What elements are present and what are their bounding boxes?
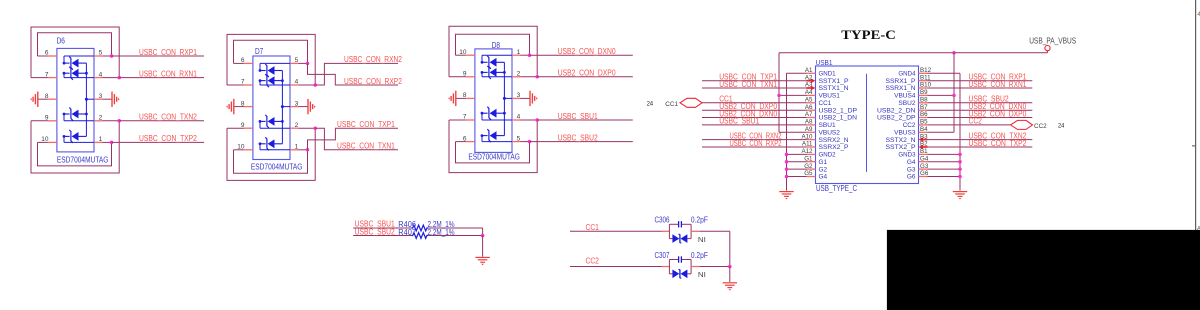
svg-text:10: 10 <box>41 136 49 143</box>
svg-text:VBUS3: VBUS3 <box>894 130 916 137</box>
svg-text:9: 9 <box>241 122 245 129</box>
svg-text:USB1: USB1 <box>816 58 833 67</box>
svg-text:USBC_CON_TXN1: USBC_CON_TXN1 <box>719 80 777 89</box>
svg-text:8: 8 <box>45 93 49 100</box>
svg-text:USBC_CON_RXP1: USBC_CON_RXP1 <box>139 48 197 57</box>
svg-text:8: 8 <box>463 92 467 99</box>
svg-text:CC2: CC2 <box>586 257 600 266</box>
svg-text:USB2_1_DP: USB2_1_DP <box>819 107 858 114</box>
svg-text:SSTX2_P: SSTX2_P <box>886 144 916 151</box>
svg-text:D6: D6 <box>57 37 66 46</box>
svg-text:GND1: GND1 <box>819 71 836 78</box>
svg-text:USBC_SBU2: USBC_SBU2 <box>355 228 396 237</box>
svg-text:CC2: CC2 <box>1034 123 1047 130</box>
svg-text:TYPE-C: TYPE-C <box>841 28 896 42</box>
svg-text:NI: NI <box>698 272 706 279</box>
svg-text:D7: D7 <box>255 47 264 56</box>
svg-text:USBC_CON_RXN1: USBC_CON_RXN1 <box>139 69 197 78</box>
svg-text:USBC_SBU2: USBC_SBU2 <box>558 133 599 142</box>
svg-text:B5: B5 <box>920 119 928 126</box>
svg-text:USBC_CON_TXP2: USBC_CON_TXP2 <box>969 139 1027 148</box>
svg-text:24: 24 <box>647 101 654 108</box>
svg-text:9: 9 <box>463 71 467 78</box>
svg-text:5: 5 <box>99 50 103 57</box>
svg-text:B8: B8 <box>920 97 928 104</box>
svg-text:10: 10 <box>459 49 467 56</box>
svg-text:USB2_2_DN: USB2_2_DN <box>877 107 916 114</box>
svg-text:SSTX1_N: SSTX1_N <box>819 85 849 92</box>
svg-text:USBC_CON_TXN1: USBC_CON_TXN1 <box>337 142 395 151</box>
svg-text:G3: G3 <box>907 166 916 173</box>
svg-text:2: 2 <box>517 71 521 78</box>
svg-text:USBC_CON_RXP2: USBC_CON_RXP2 <box>730 139 782 148</box>
svg-text:1: 1 <box>295 144 299 151</box>
svg-text:2: 2 <box>99 115 103 122</box>
svg-text:CC1: CC1 <box>665 101 678 108</box>
svg-text:ESD7004MUTAG: ESD7004MUTAG <box>468 152 520 161</box>
svg-text:7: 7 <box>241 79 245 86</box>
svg-text:SBU2: SBU2 <box>898 100 915 107</box>
svg-text:G4: G4 <box>920 155 929 162</box>
svg-text:CC1: CC1 <box>586 223 600 232</box>
svg-text:USB2_CON_DXN0: USB2_CON_DXN0 <box>558 47 616 56</box>
svg-text:C307: C307 <box>655 251 670 260</box>
svg-text:B9: B9 <box>920 89 928 96</box>
svg-text:C306: C306 <box>655 216 670 225</box>
svg-text:G6: G6 <box>920 170 929 177</box>
svg-text:SSRX1_N: SSRX1_N <box>886 85 916 92</box>
svg-text:USBC_SBU1: USBC_SBU1 <box>558 112 599 121</box>
svg-text:8: 8 <box>241 100 245 107</box>
svg-text:R407: R407 <box>398 228 416 237</box>
svg-text:4: 4 <box>517 114 521 121</box>
svg-text:B2: B2 <box>920 141 928 148</box>
svg-text:9: 9 <box>45 115 49 122</box>
svg-text:G1: G1 <box>819 159 828 166</box>
svg-text:USBC_CON_RXN2: USBC_CON_RXN2 <box>344 55 402 64</box>
svg-text:B1: B1 <box>920 148 928 155</box>
svg-text:USB_TYPE_C: USB_TYPE_C <box>816 184 857 193</box>
svg-text:CC1: CC1 <box>819 100 832 107</box>
svg-text:7: 7 <box>45 71 49 78</box>
svg-text:USBC_CON_TXP1: USBC_CON_TXP1 <box>337 120 395 129</box>
svg-text:SSRX2_N: SSRX2_N <box>819 137 849 144</box>
svg-text:SSRX1_P: SSRX1_P <box>886 78 916 85</box>
svg-text:5: 5 <box>295 57 299 64</box>
svg-text:SSTX1_P: SSTX1_P <box>819 78 849 85</box>
svg-text:6: 6 <box>241 57 245 64</box>
svg-text:USBC_CON_TXN2: USBC_CON_TXN2 <box>139 113 197 122</box>
svg-text:B6: B6 <box>920 111 928 118</box>
svg-text:4: 4 <box>295 79 299 86</box>
svg-text:USBC_CON_RXN1: USBC_CON_RXN1 <box>969 80 1027 89</box>
svg-text:3: 3 <box>99 93 103 100</box>
svg-text:NI: NI <box>698 237 706 244</box>
svg-text:USB2_1_DN: USB2_1_DN <box>819 115 858 122</box>
svg-text:B4: B4 <box>920 126 928 133</box>
svg-text:10: 10 <box>237 144 245 151</box>
svg-text:USB2_CON_DXP0: USB2_CON_DXP0 <box>558 69 616 78</box>
svg-text:ESD7004MUTAG: ESD7004MUTAG <box>57 155 109 164</box>
svg-text:GND2: GND2 <box>819 152 836 159</box>
svg-text:24: 24 <box>1058 123 1065 130</box>
svg-text:B3: B3 <box>920 133 928 140</box>
svg-text:G4: G4 <box>907 159 916 166</box>
svg-text:SSTX2_N: SSTX2_N <box>886 137 916 144</box>
svg-text:ESD7004MUTAG: ESD7004MUTAG <box>251 163 303 172</box>
svg-text:2.2M_1%: 2.2M_1% <box>428 228 455 237</box>
svg-text:VBUS2: VBUS2 <box>819 130 841 137</box>
svg-text:2: 2 <box>295 122 299 129</box>
svg-text:1: 1 <box>517 49 521 56</box>
svg-text:USBC_CON_TXP2: USBC_CON_TXP2 <box>139 134 197 143</box>
svg-text:USB_PA_VBUS: USB_PA_VBUS <box>1029 37 1076 46</box>
svg-text:G4: G4 <box>819 174 828 181</box>
svg-text:SBU1: SBU1 <box>819 122 836 129</box>
svg-text:5: 5 <box>517 135 521 142</box>
svg-text:G3: G3 <box>920 163 929 170</box>
svg-text:GND3: GND3 <box>898 152 915 159</box>
svg-text:USBC_SBU1: USBC_SBU1 <box>719 117 760 126</box>
svg-text:B7: B7 <box>920 104 928 111</box>
svg-text:SSRX2_P: SSRX2_P <box>819 144 849 151</box>
svg-text:VBUS1: VBUS1 <box>819 93 841 100</box>
svg-text:3: 3 <box>295 100 299 107</box>
svg-text:CC2: CC2 <box>969 117 983 126</box>
svg-text:6: 6 <box>45 50 49 57</box>
svg-text:0.2pF: 0.2pF <box>691 216 708 225</box>
svg-text:GND4: GND4 <box>898 71 915 78</box>
svg-text:USB2_2_DP: USB2_2_DP <box>877 115 916 122</box>
svg-text:6: 6 <box>463 135 467 142</box>
svg-text:3: 3 <box>517 92 521 99</box>
svg-text:1: 1 <box>99 136 103 143</box>
svg-text:G6: G6 <box>907 174 916 181</box>
svg-text:VBUS4: VBUS4 <box>894 93 916 100</box>
svg-text:USBC_CON_RXP2: USBC_CON_RXP2 <box>344 77 402 86</box>
svg-text:G2: G2 <box>819 166 828 173</box>
svg-text:CC2: CC2 <box>903 122 916 129</box>
svg-text:D8: D8 <box>492 41 501 50</box>
svg-text:0.2pF: 0.2pF <box>691 251 708 260</box>
svg-text:7: 7 <box>463 114 467 121</box>
svg-text:4: 4 <box>99 71 103 78</box>
